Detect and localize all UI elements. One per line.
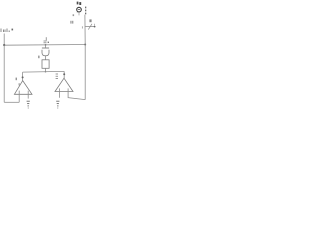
label left of rail (70, 21, 71, 24)
label left of capacitor (38, 56, 39, 59)
capacitor C1 cup (42, 50, 49, 56)
label source top-right (77, 2, 79, 5)
node bus-to-chain junction (45, 44, 47, 46)
wire right rail (84, 15, 86, 100)
node label input text top-left (1, 29, 7, 33)
label above output branch (89, 19, 91, 22)
label pin number near U1 left edge (19, 83, 20, 85)
op-amp U2 triangle (55, 78, 73, 91)
ground under U2 (56, 101, 59, 108)
wire mid horizontal between op-amps (23, 70, 65, 73)
capacitor C1 polarized plate (42, 47, 49, 49)
wire bus horizontal (4, 44, 85, 47)
wire bottom-left feedback (4, 101, 19, 103)
arrow tick across branch (88, 24, 92, 30)
label C1 above capacitor (44, 37, 47, 43)
wire source lead to rail (78, 12, 80, 15)
wire output branch (85, 26, 94, 28)
label left of U1 output (16, 78, 17, 81)
ground under U1 (27, 101, 30, 108)
wire capacitor to resistor (45, 56, 47, 60)
label tick at rail (81, 26, 83, 28)
op-amp U1 triangle (14, 81, 32, 95)
wire left rail (3, 34, 5, 103)
node mid junction (45, 71, 47, 73)
node U1 output dot (22, 76, 24, 78)
tick above output terminal (94, 24, 96, 26)
pin U2 non-inverting input (59, 88, 61, 97)
pin U1 non-inverting input (18, 91, 20, 103)
label left of rail upper (73, 14, 75, 16)
resistor R1 box (42, 60, 49, 69)
wire resistor to mid wire (45, 68, 47, 71)
node U2 output dot (63, 73, 65, 75)
node bus-right junction (84, 44, 86, 46)
source circle symbol (77, 7, 82, 12)
pin U2 second input (68, 88, 85, 99)
wire riser to op-amp U1 output (22, 72, 24, 81)
wire riser to op-amp U2 output (63, 71, 65, 78)
wire stub bus to capacitor (45, 45, 47, 48)
node output terminal (94, 26, 96, 28)
capacitor C2 dashes left of U2 (56, 74, 58, 78)
pin U1 inverting input (27, 91, 29, 99)
label value column right of source (85, 7, 86, 15)
node input junction (3, 44, 5, 46)
